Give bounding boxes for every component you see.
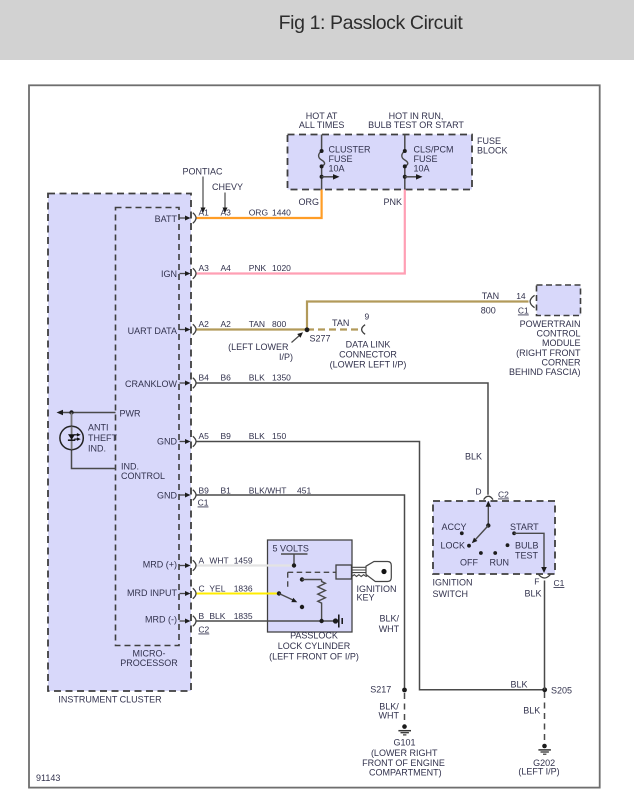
svg-text:1836: 1836: [234, 584, 253, 594]
svg-text:INSTRUMENT CLUSTER: INSTRUMENT CLUSTER: [58, 695, 162, 705]
svg-text:UART DATA: UART DATA: [128, 326, 177, 336]
svg-text:5 VOLTS: 5 VOLTS: [273, 544, 309, 554]
svg-text:MRD (+): MRD (+): [143, 560, 177, 570]
CHEVY arrow: [224, 193, 226, 209]
svg-text:BLK: BLK: [249, 431, 265, 441]
svg-text:DATA LINK: DATA LINK: [346, 340, 391, 350]
svg-text:C2: C2: [198, 625, 209, 635]
svg-text:TEST: TEST: [515, 551, 539, 561]
svg-text:FUSE: FUSE: [329, 154, 353, 164]
svg-text:ANTI: ANTI: [88, 423, 109, 433]
svg-text:YEL: YEL: [209, 584, 225, 594]
svg-text:CLS/PCM: CLS/PCM: [414, 145, 454, 155]
svg-text:C2: C2: [498, 490, 509, 500]
svg-text:GND: GND: [157, 437, 178, 447]
fuse block box: [288, 135, 473, 190]
svg-text:IGNITION: IGNITION: [433, 578, 473, 588]
svg-text:10A: 10A: [329, 164, 345, 174]
connector PCM pin 14 C1: [530, 295, 534, 307]
anti-theft indicator LED: [60, 426, 83, 449]
wire IGN PNK 1020: [197, 190, 405, 274]
svg-text:B1: B1: [221, 486, 232, 496]
svg-text:PWR: PWR: [120, 409, 141, 419]
svg-text:SWITCH: SWITCH: [433, 589, 469, 599]
svg-text:CORNER: CORNER: [541, 357, 581, 367]
svg-text:MRD INPUT: MRD INPUT: [127, 588, 177, 598]
svg-text:Fig 1: Passlock Circuit: Fig 1: Passlock Circuit: [279, 12, 464, 34]
svg-text:451: 451: [297, 486, 311, 496]
svg-text:(LEFT LOWER: (LEFT LOWER: [228, 342, 289, 352]
svg-text:A2: A2: [221, 319, 232, 329]
svg-text:MODULE: MODULE: [542, 338, 581, 348]
svg-text:WHT: WHT: [379, 711, 400, 721]
svg-text:MICRO-: MICRO-: [133, 649, 166, 659]
connector ignition switch F C1: [539, 575, 551, 579]
svg-text:PROCESSOR: PROCESSOR: [120, 658, 178, 668]
node S205: [542, 687, 547, 692]
wire MRD (+) WHT 1459: [197, 564, 295, 566]
svg-text:1020: 1020: [272, 263, 291, 273]
svg-text:ORG: ORG: [249, 208, 268, 218]
pin arrow and connector at instrument cluster edge: [180, 593, 187, 595]
pin arrow and connector at instrument cluster edge: [180, 382, 187, 384]
svg-text:WHT: WHT: [379, 624, 400, 634]
svg-text:CRANKLOW: CRANKLOW: [125, 379, 178, 389]
fuse F2 CLS/PCM FUSE 10A: [404, 135, 406, 152]
node S217: [402, 688, 407, 693]
wire LED branch: [71, 413, 73, 427]
svg-text:1350: 1350: [272, 373, 291, 383]
wire GND A5 BLK 150: [197, 442, 545, 690]
microprocessor box: [116, 208, 180, 646]
svg-text:BULB TEST OR START: BULB TEST OR START: [368, 120, 464, 130]
svg-text:TAN: TAN: [482, 291, 499, 301]
svg-text:S217: S217: [370, 685, 391, 695]
node S277: [305, 327, 310, 332]
svg-text:BLOCK: BLOCK: [477, 146, 508, 156]
svg-text:BLK: BLK: [465, 452, 482, 462]
svg-text:CLUSTER: CLUSTER: [329, 145, 372, 155]
wire S217 dashed to G101: [404, 693, 406, 725]
pin arrow and connector at instrument cluster edge: [180, 329, 187, 331]
case ground contact: [333, 618, 338, 623]
wire UART DATA TAN 800: [197, 328, 308, 330]
svg-text:1835: 1835: [234, 611, 253, 621]
svg-text:KEY: KEY: [357, 592, 375, 602]
svg-text:THEFT: THEFT: [88, 433, 117, 443]
svg-text:BLK: BLK: [525, 589, 542, 599]
svg-text:A4: A4: [221, 263, 232, 273]
svg-text:1459: 1459: [234, 556, 253, 566]
fuse F1 CLUSTER FUSE 10A: [321, 135, 323, 152]
svg-text:FRONT OF ENGINE: FRONT OF ENGINE: [362, 758, 445, 768]
svg-text:WHT: WHT: [209, 556, 228, 566]
svg-text:800: 800: [481, 306, 496, 316]
svg-text:A3: A3: [199, 263, 210, 273]
svg-text:GND: GND: [157, 491, 178, 501]
svg-text:F: F: [534, 577, 539, 587]
connector ignition switch D C2: [484, 496, 493, 499]
svg-text:B9: B9: [199, 486, 210, 496]
svg-text:PNK: PNK: [249, 263, 267, 273]
svg-text:COMPARTMENT): COMPARTMENT): [369, 768, 442, 778]
svg-text:10A: 10A: [414, 164, 430, 174]
svg-text:CONTROL: CONTROL: [536, 329, 580, 339]
PONTIAC arrow: [202, 177, 204, 209]
svg-text:A1: A1: [199, 208, 210, 218]
ignition key: [336, 565, 352, 579]
pin arrow and connector at instrument cluster edge: [180, 273, 187, 275]
wire TAN dashed to data link connector: [307, 328, 361, 330]
svg-text:LOCK: LOCK: [441, 541, 466, 551]
svg-text:BEHIND FASCIA): BEHIND FASCIA): [509, 367, 581, 377]
svg-text:IND.: IND.: [121, 462, 139, 472]
svg-text:(LOWER LEFT I/P): (LOWER LEFT I/P): [330, 360, 407, 370]
svg-text:BLK: BLK: [249, 373, 265, 383]
svg-text:B: B: [199, 611, 205, 621]
svg-text:C1: C1: [554, 578, 565, 588]
svg-text:14: 14: [516, 291, 526, 301]
svg-text:IND.: IND.: [88, 444, 106, 454]
ignition switch wiper feed: [487, 507, 489, 526]
resistor to MRD(-) junction: [319, 619, 323, 623]
svg-text:A2: A2: [199, 319, 210, 329]
svg-text:PASSLOCK: PASSLOCK: [290, 631, 338, 641]
svg-text:OFF: OFF: [460, 558, 478, 568]
wire PWR: [62, 412, 116, 414]
svg-text:A5: A5: [199, 431, 210, 441]
pin arrow and connector at instrument cluster edge: [180, 565, 187, 567]
wire TAN 800 to PCM: [307, 302, 529, 330]
wire S205 dashed to G202: [544, 692, 546, 743]
connector data link 9: [362, 325, 365, 335]
svg-text:ORG: ORG: [299, 197, 320, 207]
svg-text:B4: B4: [199, 373, 210, 383]
powertrain control module box: [537, 285, 581, 316]
pin arrow and connector at instrument cluster edge: [180, 494, 187, 496]
mechanical link dashed from ignition key: [288, 571, 336, 573]
svg-text:S277: S277: [310, 334, 331, 344]
svg-text:B9: B9: [221, 431, 232, 441]
svg-text:1440: 1440: [272, 208, 291, 218]
svg-text:ALL TIMES: ALL TIMES: [299, 120, 345, 130]
svg-text:IGN: IGN: [161, 269, 177, 279]
svg-text:BLK: BLK: [511, 680, 528, 690]
svg-text:BLK: BLK: [209, 611, 225, 621]
svg-text:BLK: BLK: [523, 706, 540, 716]
passlock resistor: [300, 577, 304, 581]
svg-text:CONNECTOR: CONNECTOR: [339, 350, 397, 360]
svg-text:C1: C1: [518, 306, 529, 316]
svg-text:9: 9: [365, 312, 370, 322]
svg-text:150: 150: [272, 431, 286, 441]
svg-text:PONTIAC: PONTIAC: [183, 167, 224, 177]
svg-text:BLK/: BLK/: [379, 614, 399, 624]
svg-text:A3: A3: [221, 208, 232, 218]
wire GND B9 BLK/WHT 451: [197, 495, 405, 690]
svg-text:BLK/WHT: BLK/WHT: [249, 486, 287, 496]
svg-text:CONTROL: CONTROL: [121, 471, 165, 481]
passlock lock cylinder box: [268, 540, 353, 632]
ignition switch position contacts: [460, 531, 464, 535]
svg-text:START: START: [510, 522, 539, 532]
ignition switch wiper arm to LOCK: [486, 523, 490, 527]
wire START to pin F: [514, 533, 544, 567]
5 volts supply: [281, 553, 308, 555]
svg-text:(RIGHT FRONT: (RIGHT FRONT: [516, 348, 581, 358]
pin arrow and connector at instrument cluster edge: [180, 620, 187, 622]
ground G202: [542, 744, 547, 749]
passlock switch: [277, 591, 281, 595]
svg-text:C1: C1: [198, 498, 209, 508]
svg-text:91143: 91143: [36, 773, 60, 783]
svg-text:POWERTRAIN: POWERTRAIN: [520, 319, 581, 329]
svg-text:LOCK CYLINDER: LOCK CYLINDER: [278, 641, 351, 651]
svg-text:CHEVY: CHEVY: [212, 182, 243, 192]
svg-text:FUSE: FUSE: [414, 154, 438, 164]
svg-text:RUN: RUN: [490, 558, 510, 568]
svg-text:(LEFT FRONT OF I/P): (LEFT FRONT OF I/P): [269, 652, 359, 662]
ground G101: [402, 724, 407, 729]
wire BATT ORG 1440: [197, 190, 322, 219]
svg-text:D: D: [475, 487, 481, 497]
svg-text:PNK: PNK: [384, 197, 403, 207]
drawing frame: [29, 85, 600, 787]
svg-text:B6: B6: [221, 373, 232, 383]
node PWR junction: [69, 410, 73, 414]
svg-text:800: 800: [272, 319, 286, 329]
svg-text:G101: G101: [393, 738, 415, 748]
svg-text:A: A: [199, 556, 205, 566]
title bar: [0, 0, 634, 60]
wire MRD INPUT YEL 1836: [197, 592, 280, 594]
svg-text:FUSE: FUSE: [477, 136, 501, 146]
svg-text:BATT: BATT: [155, 214, 178, 224]
instrument cluster box: [48, 194, 191, 692]
svg-text:(LEFT I/P): (LEFT I/P): [518, 767, 559, 777]
wire BLK ignition switch to S205: [544, 581, 546, 690]
svg-text:I/P): I/P): [279, 352, 293, 362]
pin arrow and connector at instrument cluster edge: [180, 441, 187, 443]
svg-text:ACCY: ACCY: [442, 522, 467, 532]
svg-text:(LOWER RIGHT: (LOWER RIGHT: [371, 748, 438, 758]
svg-text:TAN: TAN: [249, 319, 265, 329]
svg-text:BULB: BULB: [515, 541, 539, 551]
svg-text:TAN: TAN: [332, 318, 349, 328]
wire MRD (-) BLK 1835: [197, 620, 336, 622]
wire CRANKLOW BLK 1350: [197, 383, 489, 495]
ignition switch box: [433, 501, 555, 574]
arrow to S277: [292, 335, 301, 343]
svg-text:MRD (-): MRD (-): [145, 615, 177, 625]
svg-text:C: C: [199, 584, 205, 594]
svg-text:S205: S205: [551, 686, 572, 696]
pin arrow and connector at instrument cluster edge: [180, 217, 187, 219]
